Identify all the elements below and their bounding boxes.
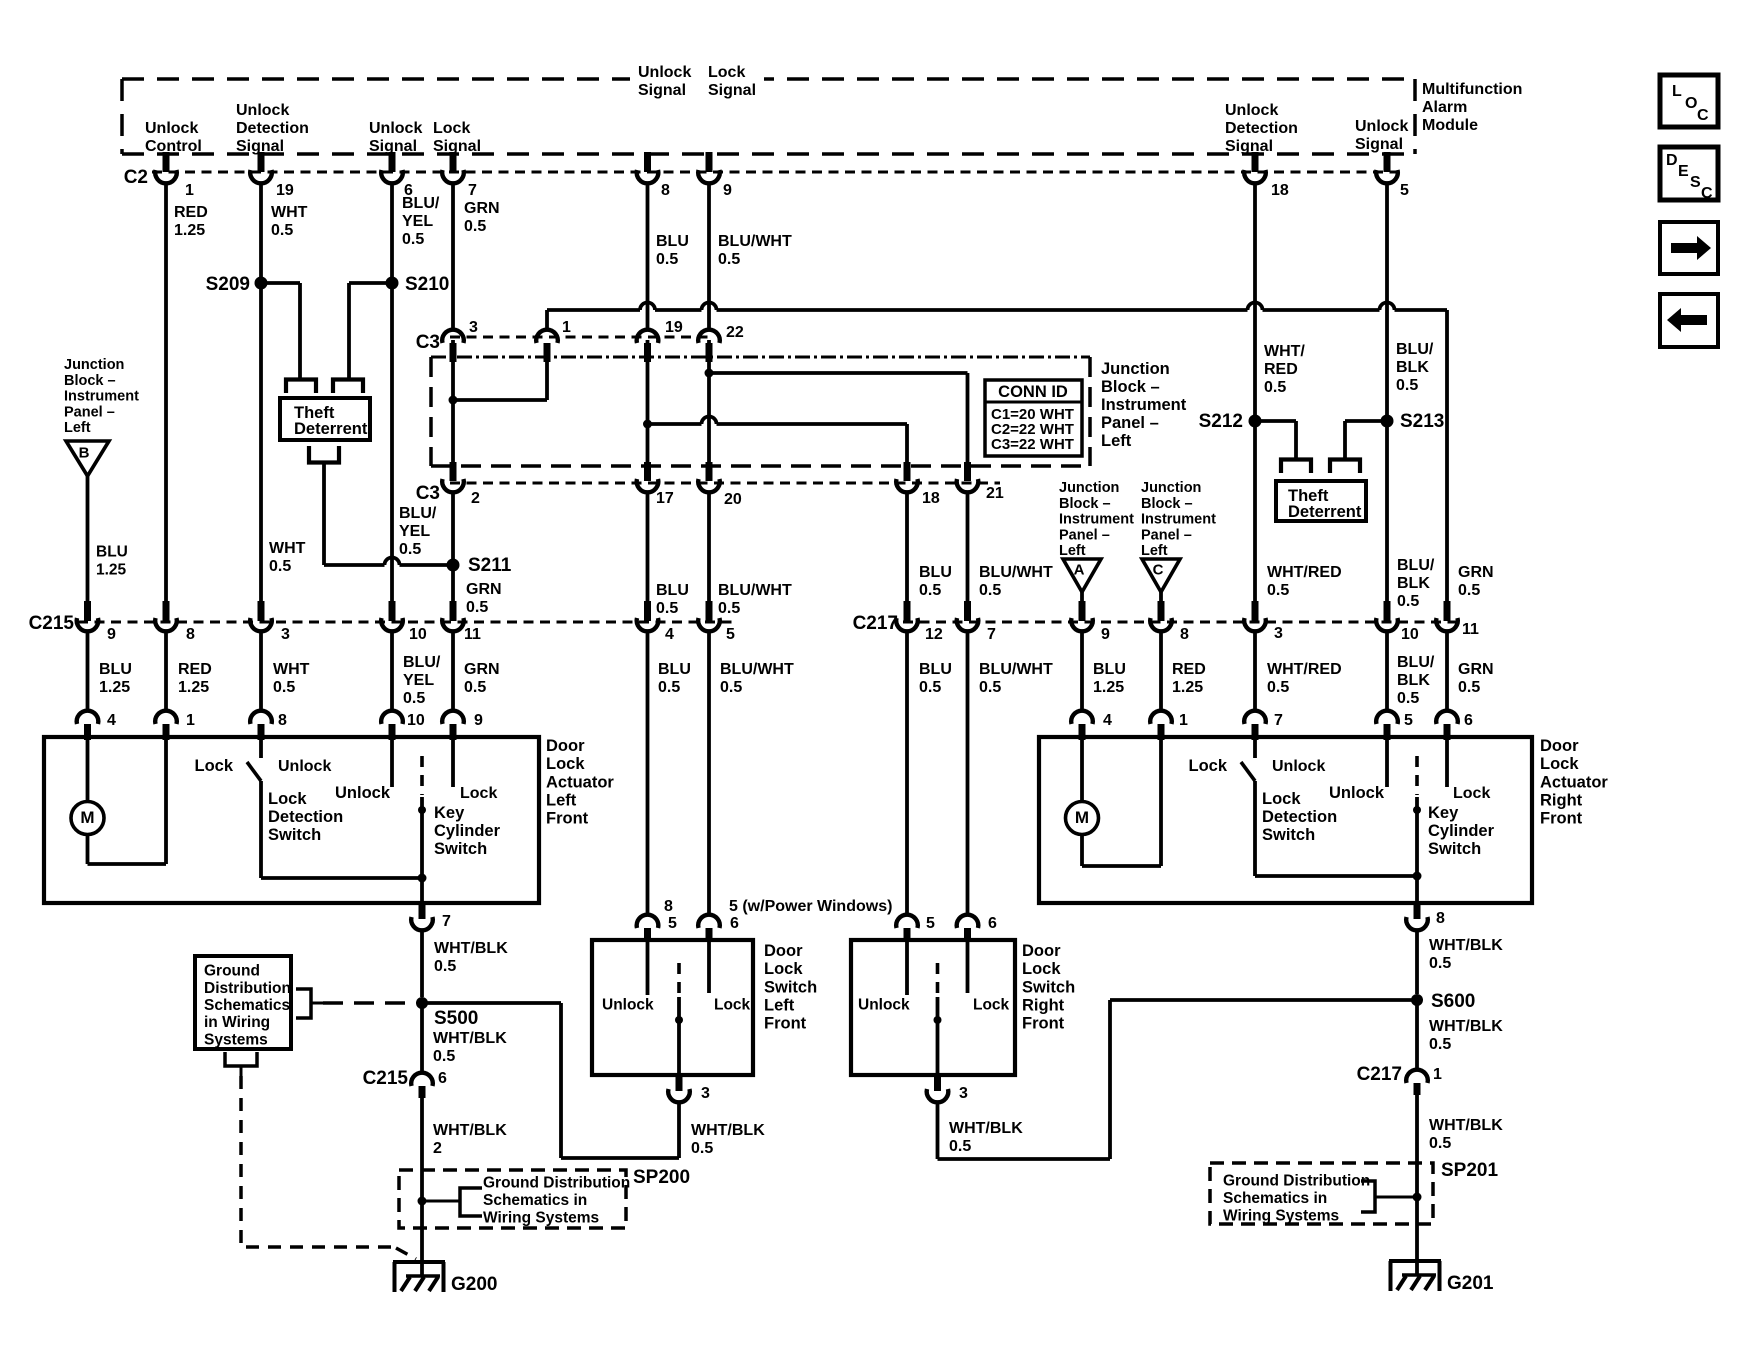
svg-text:Unlock: Unlock [278,758,331,775]
svg-text:10: 10 [1401,626,1419,643]
svg-text:0.5: 0.5 [720,679,742,696]
svg-text:BLK: BLK [1397,575,1430,592]
connector C3 pin 2 [450,462,457,481]
svg-text:1.25: 1.25 [1172,679,1203,696]
left switch connector pin 5 [637,915,659,928]
svg-text:B: B [79,444,90,461]
svg-text:5 (w/Power Windows): 5 (w/Power Windows) [729,898,892,915]
svg-text:Schematics in: Schematics in [1223,1190,1327,1207]
svg-text:0.5: 0.5 [403,690,425,707]
wire to left door lock actuator [451,631,455,711]
svg-text:G200: G200 [451,1274,497,1295]
svg-text:0.5: 0.5 [919,582,941,599]
svg-text:4: 4 [665,626,674,643]
svg-text:0.5: 0.5 [1429,955,1451,972]
svg-text:Lock: Lock [460,785,497,802]
svg-text:0.5: 0.5 [658,679,680,696]
left actuator connector pin 1 [155,711,177,724]
wire C3-19 to C3-17 [646,340,650,465]
svg-text:in Wiring: in Wiring [204,1014,270,1031]
svg-text:Unlock: Unlock [145,120,198,137]
svg-text:6: 6 [438,1070,447,1087]
splice S600 [1411,994,1423,1006]
svg-text:Left: Left [64,420,91,436]
ground distribution schematics reference box [195,956,291,1049]
svg-text:Lock: Lock [973,997,1010,1014]
bracket to S500 dashed wire [296,989,311,1018]
junction block B triangle [66,441,109,476]
connector C217 pin 10 [1384,601,1391,621]
right actuator connector pin 8 [1414,903,1421,919]
connector C215 pin 5 [706,601,713,621]
svg-text:Left: Left [1059,543,1086,559]
wire node to C3-1 [453,398,547,402]
node on BLU wire [643,420,652,429]
svg-text:0.5: 0.5 [434,958,456,975]
bracket below reference box [225,1052,257,1066]
svg-text:Door: Door [1540,737,1579,755]
svg-text:9: 9 [1101,626,1110,643]
connector C217 pin 8 [1158,601,1165,621]
door lock actuator right front box [1039,737,1532,903]
svg-text:A: A [1074,561,1085,578]
svg-text:C: C [1697,107,1709,124]
connector C217 pin 12 [904,601,911,621]
connector C2 pin 18 [1252,152,1259,172]
svg-text:SP200: SP200 [633,1167,690,1188]
dashed reference wire to S500 [323,1001,412,1005]
svg-text:WHT/BLK: WHT/BLK [1429,937,1503,954]
switch common left [677,963,681,993]
svg-text:0.5: 0.5 [1267,582,1289,599]
svg-text:11: 11 [464,626,481,643]
lock detection switch right [1253,739,1257,758]
svg-text:C: C [1153,561,1164,578]
svg-text:WHT: WHT [273,661,310,678]
svg-text:8: 8 [661,182,670,199]
wire to left door lock actuator [164,631,168,711]
svg-text:0.5: 0.5 [1264,379,1286,396]
wire C3-22 to C3-20 [707,340,711,465]
svg-text:0.5: 0.5 [1429,1036,1451,1053]
switch contacts right [905,941,909,995]
svg-text:Instrument: Instrument [1101,396,1187,414]
svg-text:7: 7 [987,626,996,643]
svg-text:8: 8 [278,712,287,729]
svg-text:19: 19 [276,182,294,199]
svg-text:Module: Module [1422,117,1478,134]
multifunction alarm module box [122,77,1415,81]
wire node to C3-21 [709,371,968,375]
svg-text:Junction: Junction [64,357,124,373]
connector C2 pin 6 [389,152,396,172]
wire C2-9 BLU/WHT 0.5 [707,184,711,330]
svg-text:Front: Front [546,810,589,828]
ground G200 [393,1260,445,1264]
wire S500 branch to left door lock switch [422,1001,561,1005]
dashed reference wire to G200 [241,1076,398,1247]
svg-text:S211: S211 [468,555,512,576]
svg-text:Block –: Block – [64,373,116,389]
svg-text:Switch: Switch [268,826,321,844]
svg-text:0.5: 0.5 [399,541,421,558]
svg-text:BLU/WHT: BLU/WHT [979,564,1053,581]
legend DESC box [1660,147,1718,200]
svg-text:Detection: Detection [1262,808,1337,826]
right theft deterrent bracket right [1330,460,1360,474]
svg-text:BLU/: BLU/ [1397,654,1435,671]
bracket SP200 [460,1188,482,1216]
theft deterrent bottom bracket [309,446,339,463]
svg-text:Switch: Switch [1022,978,1075,996]
right switch connector pin 5 [896,915,918,928]
connector C3 pin 20 [706,462,713,481]
svg-text:Left: Left [546,792,577,810]
key cylinder switch left [390,739,394,787]
svg-text:Block –: Block – [1059,496,1111,512]
svg-text:Lock: Lock [708,64,745,81]
connector C2 pin 8 [644,152,651,172]
svg-text:0.5: 0.5 [656,600,678,617]
svg-text:Unlock: Unlock [638,64,691,81]
connector C2 pin 9 [706,152,713,172]
ground G201 [1389,1259,1441,1263]
wire theft deterrent to S211 [322,472,326,565]
wire C215-6 to ground G200 [420,1098,424,1276]
svg-text:0.5: 0.5 [464,218,486,235]
svg-text:19: 19 [665,319,683,336]
connector C217 pin 7 [964,601,971,621]
svg-text:0.5: 0.5 [1458,679,1480,696]
svg-text:Junction: Junction [1141,480,1201,496]
svg-text:2: 2 [433,1140,442,1157]
svg-text:BLK: BLK [1397,672,1430,689]
svg-text:Instrument: Instrument [1141,512,1216,528]
svg-text:0.5: 0.5 [656,251,678,268]
svg-text:10: 10 [409,626,427,643]
svg-text:Multifunction: Multifunction [1422,81,1522,98]
svg-text:Systems: Systems [204,1031,268,1048]
svg-text:BLU/: BLU/ [403,654,441,671]
svg-text:0.5: 0.5 [269,558,291,575]
wire node to C3-18 [648,422,702,426]
connector C2 pin 7 [450,152,457,172]
svg-text:C: C [1701,185,1713,202]
wire S500 to C215-6 [420,1003,424,1073]
right switch connector pin 6 [957,915,979,928]
svg-text:C215: C215 [363,1068,409,1089]
svg-text:Door: Door [546,737,585,755]
connector C215 dotted line [78,621,737,624]
wire C3-2 to C215-11 GRN 0.5 [451,492,455,602]
svg-text:Actuator: Actuator [546,773,614,791]
svg-text:Door: Door [764,942,803,960]
svg-text:S: S [1690,174,1701,191]
connector C3 pin 22 [698,330,720,343]
svg-text:S500: S500 [434,1008,478,1029]
svg-text:22: 22 [726,324,744,341]
svg-text:1: 1 [1179,712,1188,729]
svg-text:WHT/: WHT/ [1264,343,1305,360]
svg-text:YEL: YEL [403,672,434,689]
wire to right door lock actuator [1445,631,1449,711]
svg-text:Switch: Switch [764,978,817,996]
svg-text:Lock: Lock [1262,790,1301,808]
svg-text:0.5: 0.5 [979,582,1001,599]
wire to right door lock actuator [1385,631,1389,711]
connector C2 dotted line [152,171,1400,174]
wire motor to pin1 [86,835,90,865]
svg-text:WHT/BLK: WHT/BLK [433,1122,507,1139]
svg-text:0.5: 0.5 [1397,690,1419,707]
wire S213 to theft deterrent [1345,419,1387,423]
svg-text:G201: G201 [1447,1273,1494,1294]
connector C3 pin 18 [904,462,911,481]
wire C2-5 BLU/BLK 0.5 [1385,184,1389,602]
svg-text:4: 4 [1103,712,1112,729]
left actuator connector pin 4 [77,711,99,724]
svg-text:WHT/RED: WHT/RED [1267,564,1342,581]
splice S209 [255,277,268,290]
svg-text:Unlock: Unlock [858,997,910,1014]
svg-text:0.5: 0.5 [979,679,1001,696]
right actuator connector pin 4 [1071,711,1093,724]
svg-text:Instrument: Instrument [64,389,139,405]
svg-text:E: E [1678,163,1689,180]
svg-text:Signal: Signal [1225,138,1273,155]
svg-text:C217: C217 [853,613,898,634]
svg-text:C2: C2 [124,167,148,188]
switch common right [936,963,940,993]
wire motor to pin1 [1080,835,1084,867]
svg-text:GRN: GRN [464,661,500,678]
svg-text:RED: RED [1264,361,1298,378]
svg-text:Unlock: Unlock [236,102,289,119]
svg-text:0.5: 0.5 [1458,582,1480,599]
wire A to C217-9 [1080,592,1084,602]
svg-text:Panel –: Panel – [1059,527,1110,543]
splice box SP200 [399,1170,626,1228]
svg-text:Deterrent: Deterrent [294,420,368,438]
connector C215 pin 4 [644,601,651,621]
theft deterrent connector bracket right [333,380,363,394]
theft deterrent connector bracket left [286,380,316,394]
svg-text:Front: Front [1022,1015,1065,1033]
svg-text:Block –: Block – [1101,378,1160,396]
svg-text:CONN ID: CONN ID [998,383,1068,401]
svg-text:Block –: Block – [1141,496,1193,512]
svg-text:Lock: Lock [1540,755,1579,773]
svg-text:BLU/WHT: BLU/WHT [979,661,1053,678]
svg-text:BLU: BLU [96,544,128,561]
svg-text:20: 20 [724,491,742,508]
svg-text:3: 3 [1274,625,1283,642]
CONN ID table [985,380,1082,456]
connector C2 pin 1 [163,152,170,172]
door lock switch left front box [592,940,753,1075]
svg-text:RED: RED [1172,661,1206,678]
wire to right door lock actuator [1159,631,1163,711]
svg-text:BLU: BLU [1093,661,1126,678]
splice S212 [1249,415,1262,428]
lock detection switch left [259,739,263,758]
svg-text:0.5: 0.5 [919,679,941,696]
key cylinder switch right [1385,739,1389,787]
svg-text:5: 5 [926,915,935,932]
svg-text:Ground: Ground [204,963,260,980]
left actuator connector pin 9 [442,711,464,724]
wire pin4 to motor [86,739,90,802]
svg-text:M: M [80,808,94,827]
svg-text:S210: S210 [405,274,449,295]
svg-text:5: 5 [726,626,735,643]
svg-text:S209: S209 [206,274,250,295]
svg-text:GRN: GRN [466,581,502,598]
svg-text:18: 18 [1271,182,1289,199]
svg-text:Switch: Switch [434,840,487,858]
connector C215 pin 8 [163,601,170,621]
wire to right door lock actuator [1080,631,1084,711]
svg-text:Unlock: Unlock [1272,758,1325,775]
connector C215 pin 10 [389,601,396,621]
wire actuator to S600 [1415,930,1419,994]
svg-text:9: 9 [723,182,732,199]
svg-text:7: 7 [442,913,451,930]
svg-text:Lock: Lock [1022,960,1061,978]
svg-text:0.5: 0.5 [433,1048,455,1065]
svg-text:Key: Key [1428,804,1459,822]
svg-text:3: 3 [701,1085,710,1102]
svg-text:Left: Left [1101,432,1132,450]
svg-text:Detection: Detection [268,808,343,826]
svg-text:L: L [1672,83,1682,100]
svg-text:BLU/WHT: BLU/WHT [718,582,792,599]
motor M right [1066,802,1099,835]
svg-text:7: 7 [468,182,477,199]
door lock switch right front box [851,940,1015,1075]
wire C215-4 to switch [646,631,650,915]
svg-text:Schematics: Schematics [204,997,290,1014]
svg-text:6: 6 [1464,712,1473,729]
svg-text:BLU: BLU [919,661,952,678]
wire B to C215-9 BLU 1.25 [86,476,90,602]
theft deterrent unit U1 [280,398,370,440]
splice S500 [416,997,428,1009]
svg-text:Lock: Lock [1188,757,1227,775]
svg-text:Signal: Signal [708,82,756,99]
svg-text:M: M [1075,808,1089,827]
svg-text:WHT: WHT [269,540,306,557]
svg-text:Lock: Lock [764,960,803,978]
svg-text:0.5: 0.5 [271,222,293,239]
connector C3 pin 19 [637,330,659,343]
svg-text:C217: C217 [1357,1064,1402,1085]
svg-text:Left: Left [764,997,795,1015]
svg-text:BLK: BLK [1396,359,1429,376]
wire to right door lock actuator [1253,631,1257,711]
svg-text:5: 5 [1400,182,1409,199]
svg-text:Wiring Systems: Wiring Systems [483,1210,599,1227]
svg-text:17: 17 [656,490,674,507]
svg-text:Unlock: Unlock [1329,784,1385,802]
svg-text:Deterrent: Deterrent [1288,503,1362,521]
connector C3 pin 3 [442,330,464,343]
connector C2 pin 19 [258,152,265,172]
svg-text:Ground Distribution: Ground Distribution [483,1175,630,1192]
svg-text:Schematics in: Schematics in [483,1192,587,1209]
door lock actuator left front box [44,737,539,903]
svg-text:1: 1 [1433,1066,1442,1083]
svg-text:Signal: Signal [433,138,481,155]
svg-text:0.5: 0.5 [464,679,486,696]
svg-text:2: 2 [471,490,480,507]
svg-text:BLU/WHT: BLU/WHT [720,661,794,678]
svg-text:Right: Right [1022,997,1065,1015]
svg-text:WHT/RED: WHT/RED [1267,661,1342,678]
right switch connector pin 3 [934,1075,941,1091]
svg-text:GRN: GRN [1458,564,1494,581]
wire C3-1 interconnect to C217-11 [545,310,549,330]
wire S600 to C217-1 [1415,1000,1419,1070]
wire C3-20 to C215-5 BLU/WHT 0.5 [707,492,711,602]
svg-text:BLU: BLU [656,233,689,250]
svg-text:BLU: BLU [99,661,132,678]
svg-text:BLU/: BLU/ [1397,557,1435,574]
bracket SP201 [1361,1181,1375,1212]
connector C217 pin 11 [1444,601,1451,621]
splice S213 [1381,415,1394,428]
svg-text:Lock: Lock [1453,785,1490,802]
left switch connector pin 3 [676,1075,683,1091]
svg-text:WHT/BLK: WHT/BLK [691,1122,765,1139]
wire right switch to S600 [936,1102,940,1159]
svg-text:BLU: BLU [656,582,689,599]
connector C3 pin 1 [536,330,558,343]
wire C2-1 RED 1.25 [164,184,168,602]
svg-text:RED: RED [174,204,208,221]
svg-text:BLU/: BLU/ [1396,341,1434,358]
left switch connector pin 6 [698,915,720,928]
svg-text:5: 5 [668,915,677,932]
svg-text:9: 9 [107,626,116,643]
svg-text:Detection: Detection [236,120,309,137]
svg-text:3: 3 [281,626,290,643]
junction block instrument panel left box [431,356,1090,359]
legend forward arrow box [1660,222,1718,274]
svg-text:Switch: Switch [1262,826,1315,844]
wire C217-1 to ground G201 [1415,1095,1419,1275]
connector C217 dotted line [903,621,1462,624]
wire C2-18 WHT/RED 0.5 [1253,184,1257,602]
right actuator connector pin 6 [1436,711,1458,724]
wire C3-18 to C217-12 BLU 0.5 [905,492,909,602]
svg-text:Key: Key [434,804,465,822]
junction block C triangle [1142,559,1180,592]
wire lock detection to key cylinder common [261,876,422,880]
svg-text:Unlock: Unlock [369,120,422,137]
svg-text:Panel –: Panel – [1141,527,1192,543]
svg-text:8: 8 [664,898,673,915]
wire C to C217-8 [1159,592,1163,602]
svg-text:12: 12 [925,626,943,643]
svg-text:Cylinder: Cylinder [434,822,501,840]
svg-text:3: 3 [959,1085,968,1102]
svg-text:O: O [1685,95,1697,112]
svg-text:0.5: 0.5 [718,600,740,617]
svg-text:Signal: Signal [638,82,686,99]
connector C3 upper dotted line [450,336,712,339]
svg-text:Front: Front [1540,810,1583,828]
